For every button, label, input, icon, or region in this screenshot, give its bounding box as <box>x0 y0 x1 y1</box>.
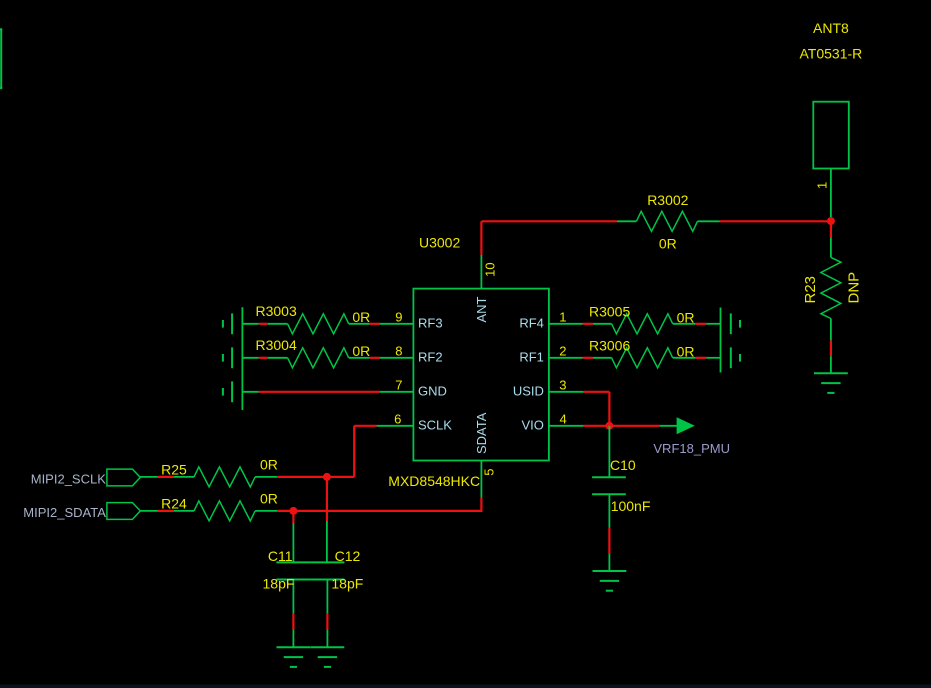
svg-text:R3004: R3004 <box>256 337 297 353</box>
svg-text:18pF: 18pF <box>331 576 363 592</box>
svg-text:MIPI2_SDATA: MIPI2_SDATA <box>23 505 106 520</box>
svg-text:0R: 0R <box>260 456 278 472</box>
svg-text:R3003: R3003 <box>256 303 297 319</box>
svg-text:0R: 0R <box>352 309 370 325</box>
svg-text:RF1: RF1 <box>519 349 544 364</box>
svg-text:SCLK: SCLK <box>418 417 452 432</box>
svg-text:7: 7 <box>395 378 402 393</box>
svg-text:AT0531-R: AT0531-R <box>800 46 863 62</box>
svg-text:R25: R25 <box>161 462 187 478</box>
svg-text:1: 1 <box>559 310 566 325</box>
svg-text:ANT: ANT <box>474 296 489 322</box>
svg-text:C10: C10 <box>610 457 636 473</box>
svg-text:R24: R24 <box>161 496 187 512</box>
svg-text:MIPI2_SCLK: MIPI2_SCLK <box>31 472 106 487</box>
svg-text:RF3: RF3 <box>418 315 443 330</box>
svg-text:R23: R23 <box>802 276 819 304</box>
svg-text:9: 9 <box>395 310 402 325</box>
svg-text:RF4: RF4 <box>519 315 544 330</box>
svg-text:0R: 0R <box>677 343 695 359</box>
svg-text:8: 8 <box>395 344 402 359</box>
svg-text:VIO: VIO <box>521 417 543 432</box>
svg-text:18pF: 18pF <box>263 576 295 592</box>
svg-text:2: 2 <box>559 344 566 359</box>
svg-text:4: 4 <box>560 411 567 426</box>
svg-text:0R: 0R <box>352 343 370 359</box>
svg-text:0R: 0R <box>659 236 677 252</box>
svg-text:VRF18_PMU: VRF18_PMU <box>653 441 730 456</box>
svg-text:3: 3 <box>559 378 566 393</box>
svg-text:USID: USID <box>513 383 544 398</box>
svg-text:R3002: R3002 <box>647 192 688 208</box>
svg-text:RF2: RF2 <box>418 349 443 364</box>
svg-text:100nF: 100nF <box>611 498 651 514</box>
svg-text:C12: C12 <box>335 548 361 564</box>
svg-text:U3002: U3002 <box>419 235 460 251</box>
svg-text:ANT8: ANT8 <box>813 20 849 36</box>
svg-text:R3005: R3005 <box>589 304 630 320</box>
svg-text:DNP: DNP <box>846 272 863 304</box>
svg-text:0R: 0R <box>677 309 695 325</box>
svg-text:C11: C11 <box>268 548 293 564</box>
svg-text:0R: 0R <box>260 491 278 507</box>
svg-text:5: 5 <box>482 469 497 476</box>
svg-text:R3006: R3006 <box>589 337 630 353</box>
svg-text:SDATA: SDATA <box>474 412 489 454</box>
svg-text:10: 10 <box>482 262 497 276</box>
svg-text:MXD8548HKC: MXD8548HKC <box>388 473 480 489</box>
svg-text:6: 6 <box>394 411 401 426</box>
svg-text:1: 1 <box>815 182 830 189</box>
svg-text:GND: GND <box>418 383 447 398</box>
